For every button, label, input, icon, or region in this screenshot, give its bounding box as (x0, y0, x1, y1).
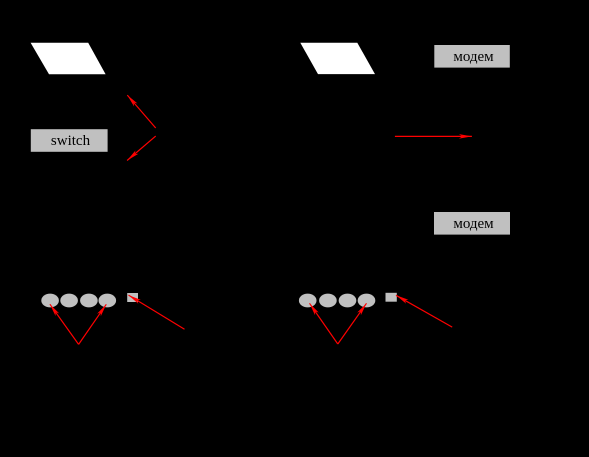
svg-text:модем: модем (453, 216, 494, 232)
svg-text:switch: switch (51, 133, 91, 149)
svg-text:модем: модем (453, 49, 494, 65)
